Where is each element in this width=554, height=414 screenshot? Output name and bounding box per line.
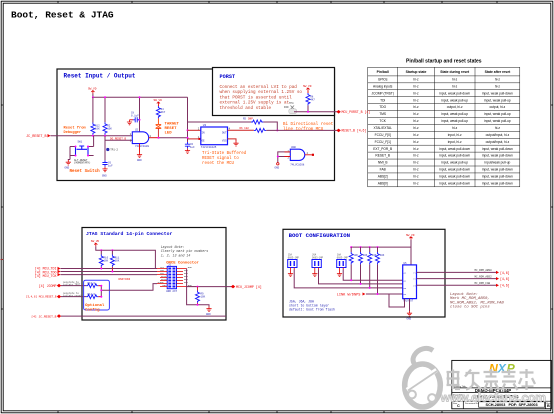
wire reset net <box>51 135 133 137</box>
section box PORST <box>213 68 335 116</box>
wire RESET_B out <box>266 129 338 131</box>
junction reset-R12 <box>92 135 94 137</box>
junction optional <box>100 285 102 287</box>
svg-text:hi-z: hi-z <box>495 78 501 82</box>
svg-text:TP4: TP4 <box>289 102 294 105</box>
switch S1 reset pushbutton <box>70 136 105 160</box>
svg-text:hi-z: hi-z <box>413 168 419 172</box>
svg-text:LED: LED <box>165 131 173 135</box>
resistor R11 10K <box>110 250 119 271</box>
junction JCOMP-R9 <box>197 286 199 288</box>
svg-text:hi-z: hi-z <box>413 91 419 95</box>
svg-text:State after reset: State after reset <box>485 70 512 74</box>
svg-text:MCU_PORST_B [4]: MCU_PORST_B [4] <box>342 110 371 114</box>
junction DNP branch <box>187 129 189 131</box>
svg-text:JC_RESET_B: JC_RESET_B <box>26 135 46 139</box>
svg-text:Debugger: Debugger <box>64 130 82 135</box>
svg-text:hi-z: hi-z <box>413 78 419 82</box>
svg-text:C: C <box>457 404 460 408</box>
ground (C6 IC) <box>185 148 190 153</box>
svg-text:XTAL/EXTAL: XTAL/EXTAL <box>373 126 392 130</box>
wire TDO <box>61 271 158 273</box>
svg-text:input, weak pull-up: input, weak pull-up <box>484 98 511 102</box>
ground (JTAG) <box>206 307 212 316</box>
label Tri-State Buffered RESET <box>202 151 247 166</box>
jumper J6A <box>312 254 324 272</box>
junction TDI-R10 <box>100 268 102 270</box>
svg-text:default: boot from flash: default: boot from flash <box>289 308 335 312</box>
svg-text:input, weak pull-down: input, weak pull-down <box>482 154 513 158</box>
output FAB <box>496 284 510 288</box>
junction rail-R11 <box>111 249 113 251</box>
section box BOOT <box>283 229 445 317</box>
wire TP to cap <box>104 140 106 160</box>
wire J8A net <box>343 270 403 281</box>
op-amp U2 74LVC1G08 <box>130 129 152 148</box>
svg-text:U3: U3 <box>203 124 207 127</box>
svg-text:output, hi-z: output, hi-z <box>490 105 506 109</box>
wire DNP feedback right <box>263 122 277 130</box>
junction reset-switch <box>104 135 106 137</box>
svg-text:X: X <box>497 361 507 375</box>
svg-text:Pin/ball: Pin/ball <box>377 70 389 74</box>
svg-text:74LVC1G125: 74LVC1G125 <box>201 146 217 149</box>
svg-text:output/input, hi-z: output/input, hi-z <box>486 133 510 137</box>
LED D1 target reset <box>156 118 162 137</box>
svg-text:[4] JCOMP: [4] JCOMP <box>39 284 57 288</box>
svg-text:[4,6]: [4,6] <box>500 271 510 275</box>
label ALT RESET text under switch <box>74 159 91 165</box>
svg-text:10K: 10K <box>201 296 206 299</box>
output MCU_PORST_B <box>336 110 370 114</box>
svg-text:GND: GND <box>407 317 412 320</box>
svg-text:GND: GND <box>137 159 142 162</box>
svg-text:(MOMENTARY): (MOMENTARY) <box>74 162 91 165</box>
jumper J5A <box>288 254 300 272</box>
svg-text:FCCU_F[1]: FCCU_F[1] <box>375 140 391 144</box>
input MCU_TCK <box>35 270 61 278</box>
svg-text:10K: 10K <box>95 128 100 131</box>
junction LED-output <box>157 137 159 139</box>
ground (U5) <box>407 311 413 320</box>
svg-text:hi-z: hi-z <box>413 154 419 158</box>
resistor R14 0 <box>86 293 101 299</box>
chinese glyphs <box>447 369 536 391</box>
wire vertical R2 feed <box>104 97 106 122</box>
buffer U5 <box>403 262 417 303</box>
resistor RN4 10K <box>376 247 385 294</box>
svg-text:GPIOs: GPIOs <box>378 78 388 82</box>
svg-text:4K7: 4K7 <box>161 111 166 114</box>
wire GND chain <box>187 269 209 307</box>
svg-text:U5: U5 <box>404 262 408 265</box>
svg-text:DG_RESET_B: DG_RESET_B <box>110 137 127 140</box>
svg-text:hi-z: hi-z <box>413 161 419 165</box>
ground (C8) <box>127 120 132 125</box>
svg-text:0603-JMP: 0603-JMP <box>312 256 324 259</box>
wire JCOMP out <box>187 286 232 288</box>
svg-text:4K7: 4K7 <box>310 99 315 102</box>
resistor R12 10K <box>91 97 100 136</box>
svg-text:10K: 10K <box>115 260 120 263</box>
ground (IC) <box>233 141 238 146</box>
svg-text:input, weak pull-down: input, weak pull-down <box>482 175 513 179</box>
junction R9-GND chain <box>197 304 199 306</box>
connector right pin labels <box>184 266 192 287</box>
wire DG_RESET_B to gate pin2 <box>105 136 132 141</box>
wire gate output <box>149 137 159 139</box>
resistor RN3 10K <box>368 247 377 288</box>
svg-text:hi-z: hi-z <box>413 105 419 109</box>
input MCU_TDI <box>35 267 61 271</box>
svg-text:10K: 10K <box>104 260 109 263</box>
resistor RN1 10K <box>349 247 358 280</box>
svg-text:10K: 10K <box>353 254 358 257</box>
svg-text:input, weak pull-down: input, weak pull-down <box>482 91 513 95</box>
svg-text:hi-z: hi-z <box>413 147 419 151</box>
buffer U3 74LVC1G125 <box>198 124 231 149</box>
svg-text:TDI: TDI <box>380 98 385 102</box>
svg-text:B: B <box>547 404 550 408</box>
wire MCU_RESET_B to R14 <box>61 296 86 298</box>
svg-text:input, weak pull-up: input, weak pull-up <box>441 161 468 165</box>
ground (U2B) <box>275 163 280 170</box>
resistor R4 4K7 (LED) <box>156 105 165 118</box>
svg-text:R13 0: R13 0 <box>88 282 96 285</box>
junction rail-C8 <box>139 96 141 98</box>
svg-text:SW_VD: SW_VD <box>88 88 97 91</box>
svg-text:Boot, Reset & JTAG: Boot, Reset & JTAG <box>11 10 114 21</box>
svg-text:VSS: VSS <box>222 140 227 143</box>
svg-text:input, weak pull-up: input, weak pull-up <box>484 112 511 116</box>
junction rail-R12 <box>92 96 94 98</box>
svg-text:State during reset: State during reset <box>440 70 470 74</box>
svg-text:Pin/ball startup and reset sta: Pin/ball startup and reset states <box>406 59 482 65</box>
svg-text:RESET_B [4,6]: RESET_B [4,6] <box>342 129 367 133</box>
ground (C6) <box>102 167 108 178</box>
junction J6A-RN2 <box>360 283 362 285</box>
svg-text:BOOT CONFIGURATION: BOOT CONFIGURATION <box>289 232 351 239</box>
svg-text:FAB: FAB <box>380 168 386 172</box>
svg-text:FCCU_F[0]: FCCU_F[0] <box>375 133 391 137</box>
svg-text:R6 102: R6 102 <box>240 127 250 130</box>
junction J5A-RN3 <box>369 287 371 289</box>
wire MCU_PORST_B <box>294 111 338 113</box>
wire U2B output stub <box>305 154 314 156</box>
resistor R2 10K <box>103 122 112 140</box>
svg-text:0.1uF: 0.1uF <box>131 115 139 118</box>
wire J5A net <box>294 270 403 288</box>
svg-text:OUT: OUT <box>222 132 227 135</box>
resistor R9 10K pulldown <box>196 287 206 305</box>
svg-text:ONCE Connector: ONCE Connector <box>166 261 199 265</box>
svg-text:DNP: DNP <box>248 118 253 121</box>
jumper J8A <box>337 254 349 272</box>
svg-text:hi-z: hi-z <box>452 78 458 82</box>
svg-text:isolate reset: isolate reset <box>63 294 82 297</box>
NXP logo <box>489 361 516 375</box>
wire DNP feedback top <box>188 121 252 123</box>
svg-text:NMI_B: NMI_B <box>378 161 388 165</box>
svg-text:Startup state: Startup state <box>406 70 427 74</box>
svg-text:SW_VD: SW_VD <box>303 85 312 88</box>
power flag SW_VD (BOOT) <box>406 234 415 240</box>
svg-text:TP1-2: TP1-2 <box>110 149 118 152</box>
svg-text:GND: GND <box>102 175 107 178</box>
svg-text:MCU_JCOMP [4]: MCU_JCOMP [4] <box>236 285 262 289</box>
wire BOOT rail <box>351 240 411 265</box>
svg-text:PORST: PORST <box>220 74 236 80</box>
junction rail-R2 <box>104 96 106 98</box>
svg-text:MC_ROM_FAB: MC_ROM_FAB <box>475 282 491 285</box>
svg-text:hi-z: hi-z <box>413 140 419 144</box>
svg-text:output/input, hi-z: output/input, hi-z <box>486 140 510 144</box>
output RESET_B <box>336 129 366 133</box>
power flag SW_VD (LED) <box>154 99 163 105</box>
svg-text:JTAG Standard 14-pin Connector: JTAG Standard 14-pin Connector <box>86 231 172 237</box>
resistor RN2 10K <box>359 247 368 284</box>
svg-text:www.elecfans.com: www.elecfans.com <box>440 391 547 405</box>
label jumper note <box>289 300 335 312</box>
svg-text:input, weak pull-down: input, weak pull-down <box>482 147 513 151</box>
svg-text:[4,6]: [4,6] <box>500 277 510 281</box>
ground (J6A) <box>312 272 317 277</box>
svg-text:1, 2, 13 and 14: 1, 2, 13 and 14 <box>161 253 191 257</box>
connector right pin stubs <box>177 269 198 287</box>
svg-text:Bi Directional reset: Bi Directional reset <box>283 122 334 127</box>
power flag SW_VD (PORST) <box>303 85 312 91</box>
section box JTAG <box>82 228 226 321</box>
section box Reset Input / Output <box>57 69 335 181</box>
svg-text:EXT_POR_B: EXT_POR_B <box>373 147 392 151</box>
test point TP1-2 <box>106 148 118 152</box>
ground (J5A) <box>288 272 293 277</box>
wire buffer output <box>228 129 254 131</box>
svg-text:1uF: 1uF <box>108 165 113 168</box>
svg-text:RDY: RDY <box>163 284 168 287</box>
svg-text:SW_VD: SW_VD <box>154 99 163 102</box>
resistor R8 4K7 (PORST) <box>306 91 315 112</box>
svg-text:U2: U2 <box>135 129 139 132</box>
svg-text:GND: GND <box>188 266 193 269</box>
ground (gate) <box>137 144 142 162</box>
label isolate note 2 <box>63 292 82 297</box>
svg-text:reset the MCU: reset the MCU <box>202 161 234 166</box>
svg-text:JCOMP (TRST): JCOMP (TRST) <box>371 91 393 95</box>
svg-text:HDR 2X7: HDR 2X7 <box>166 290 177 293</box>
svg-text:DNP/DNI: DNP/DNI <box>119 277 131 281</box>
svg-text:RESET: RESET <box>165 127 178 131</box>
svg-text:input, hi-z: input, hi-z <box>448 133 462 137</box>
svg-text:RESET_B: RESET_B <box>375 154 390 158</box>
svg-text:[4,6]: [4,6] <box>500 284 510 288</box>
wire rail top <box>93 94 188 98</box>
wire FAB out <box>417 284 497 286</box>
svg-text:input, weak pull-down: input, weak pull-down <box>439 154 470 158</box>
svg-text:hi-z: hi-z <box>413 119 419 123</box>
svg-text:SW_VD: SW_VD <box>406 234 415 237</box>
wire LINK net <box>366 293 403 295</box>
svg-text:TCK: TCK <box>380 119 387 123</box>
junction feedback <box>276 129 278 131</box>
svg-text:10K: 10K <box>380 254 385 257</box>
label TARGET RESET LED <box>165 122 180 135</box>
svg-text:input, weak pull-up: input, weak pull-up <box>484 119 511 123</box>
input JC_RESET_B bottom <box>31 314 61 318</box>
svg-text:ABS[2]: ABS[2] <box>378 175 388 179</box>
svg-text:input, weak pull-down: input, weak pull-down <box>439 175 470 179</box>
svg-text:PAD: PAD <box>284 106 289 109</box>
test point TP4 pad <box>284 102 297 114</box>
output MCU_JCOMP <box>231 285 262 289</box>
svg-text:0603-JMP: 0603-JMP <box>337 256 349 259</box>
junction U2B tie <box>277 156 279 158</box>
wire vertical gate VCC feed <box>139 97 141 132</box>
resistor R13 0 <box>86 282 101 288</box>
input arrow JC_RESET_B <box>26 134 50 139</box>
svg-text:close to SOC pins: close to SOC pins <box>450 305 490 310</box>
svg-text:OE: OE <box>202 140 206 143</box>
resistor R10 10K <box>99 250 108 268</box>
svg-text:hi-z: hi-z <box>413 126 419 130</box>
label LINK W/DNPS <box>337 292 366 297</box>
svg-text:input, weak pull-down: input, weak pull-down <box>482 182 513 186</box>
svg-text:input/weak pull-up: input/weak pull-up <box>485 161 511 165</box>
svg-text:TARGET: TARGET <box>165 122 180 126</box>
wire TDI <box>61 268 158 270</box>
svg-text:Config: Config <box>85 308 100 313</box>
svg-text:[3,4,6] MCU_RESET_B: [3,4,6] MCU_RESET_B <box>26 295 57 299</box>
connector left pin labels <box>157 266 167 287</box>
svg-text:SW1: SW1 <box>78 141 83 144</box>
junction R8-PORST <box>307 111 309 113</box>
svg-text:input, weak pull-down: input, weak pull-down <box>439 168 470 172</box>
svg-text:SW_VD: SW_VD <box>91 240 100 243</box>
power flag SW_VD (reset pull-up rail) <box>88 88 97 94</box>
junction rail-R10 <box>100 249 102 251</box>
svg-text:[4] MCU_TCK: [4] MCU_TCK <box>35 274 57 278</box>
ground (switch) <box>65 160 71 170</box>
PORST note text <box>220 85 303 111</box>
svg-text:U2B: U2B <box>291 146 296 149</box>
svg-text:RESET signal to: RESET signal to <box>202 156 239 161</box>
svg-text:LINK W/DNPS: LINK W/DNPS <box>337 292 361 297</box>
input MCU_RESET_B <box>26 295 61 299</box>
wire IC bottom loop <box>389 294 410 311</box>
wire ABS0 out <box>417 271 497 273</box>
svg-text:isolate TRST: isolate TRST <box>63 283 81 286</box>
resistor R5 DNP <box>243 118 263 125</box>
wire IC lower right stub <box>228 139 237 141</box>
wire U2B inputs tie <box>278 152 291 163</box>
svg-text:input, weak pull-down: input, weak pull-down <box>439 147 470 151</box>
svg-text:J1: J1 <box>168 264 172 267</box>
svg-text:hi-z: hi-z <box>495 126 501 130</box>
wire JC_RESET_B bottom <box>61 315 226 317</box>
wire JCOMP to R13 <box>61 285 86 287</box>
wire IC enable <box>188 138 201 140</box>
svg-text:Reset Switch: Reset Switch <box>70 169 101 174</box>
svg-text:hi-z: hi-z <box>413 133 419 137</box>
optional config box <box>84 280 110 310</box>
junction rail points <box>350 246 352 248</box>
junction LINK-RN4 <box>377 293 379 295</box>
svg-text:Tri-State Buffered: Tri-State Buffered <box>202 151 247 156</box>
stubs U2B inputs <box>285 152 291 157</box>
svg-text:ABS[0]: ABS[0] <box>378 182 388 186</box>
svg-text:IN: IN <box>202 132 206 135</box>
svg-text:Analog inputs: Analog inputs <box>373 84 393 88</box>
label layout note BOOT <box>450 293 504 310</box>
svg-text:[4] JC_RESET_B: [4] JC_RESET_B <box>31 314 56 318</box>
output ABS2 <box>496 277 510 281</box>
wire JTAG top rail <box>96 246 156 268</box>
junction output-IC feed <box>187 137 189 139</box>
svg-text:hi-z: hi-z <box>452 84 458 88</box>
svg-text:input, hi-z: input, hi-z <box>448 140 462 144</box>
svg-text:hi-z: hi-z <box>413 182 419 186</box>
connector J1 ONCE 2x7 <box>166 264 177 293</box>
wire ABS2 out <box>417 278 497 280</box>
svg-text:MC_ROM_ABS0: MC_ROM_ABS0 <box>475 269 493 272</box>
svg-text:hi-z: hi-z <box>495 84 501 88</box>
resistor R6 102 <box>254 128 266 132</box>
svg-text:hi-z: hi-z <box>452 126 458 130</box>
svg-text:GND: GND <box>275 166 280 169</box>
svg-text:hi-z: hi-z <box>413 112 419 116</box>
svg-text:R5: R5 <box>243 118 247 121</box>
svg-text:R14 0: R14 0 <box>88 293 96 296</box>
svg-text:input, weak pull-down: input, weak pull-down <box>482 168 513 172</box>
svg-text:threshold and stable: threshold and stable <box>220 106 272 111</box>
svg-text:input, weak pull-up: input, weak pull-up <box>441 119 468 123</box>
input JCOMP <box>39 284 62 288</box>
wire IC input A <box>188 129 201 131</box>
svg-text:74LVC1G08: 74LVC1G08 <box>135 145 149 148</box>
capacitor C6 1uF (IC) <box>185 142 195 150</box>
svg-text:74LVC1G08: 74LVC1G08 <box>290 164 304 167</box>
svg-text:TMS: TMS <box>379 112 386 116</box>
svg-text:MC_ROM_ABS2: MC_ROM_ABS2 <box>475 275 493 278</box>
svg-text:Optional: Optional <box>85 303 105 308</box>
svg-text:hi-z: hi-z <box>413 98 419 102</box>
wire vertical IC feed <box>187 97 189 141</box>
label isolate note 1 <box>63 281 81 286</box>
power flag SW_VD (JTAG) <box>91 240 100 246</box>
svg-text:GND: GND <box>206 313 211 316</box>
label Optional Config <box>85 303 105 312</box>
logo ring <box>405 348 441 407</box>
svg-text:10K: 10K <box>107 128 112 131</box>
label layout note JTAG <box>161 245 209 257</box>
output ABS0 <box>496 271 510 275</box>
svg-text:hi-z: hi-z <box>413 84 419 88</box>
svg-text:output, hi-z: output, hi-z <box>447 105 463 109</box>
svg-text:line to/from MCU: line to/from MCU <box>283 127 324 132</box>
svg-text:Reset Input / Output: Reset Input / Output <box>64 73 136 80</box>
svg-text:hi-z: hi-z <box>413 175 419 179</box>
svg-text:input, weak pull-up: input, weak pull-up <box>441 98 468 102</box>
svg-text:input, weak pull-down: input, weak pull-down <box>439 91 470 95</box>
capacitor C8 0.1uF <box>130 112 140 123</box>
junction TDO-R11 <box>111 271 113 273</box>
svg-text:1uF: 1uF <box>190 146 195 149</box>
connector left pin stubs <box>157 269 167 287</box>
wire optional link <box>101 284 157 297</box>
wire J6A net <box>319 270 403 284</box>
svg-text:0603-JMP: 0603-JMP <box>288 256 300 259</box>
ground (J8A) <box>337 272 342 277</box>
